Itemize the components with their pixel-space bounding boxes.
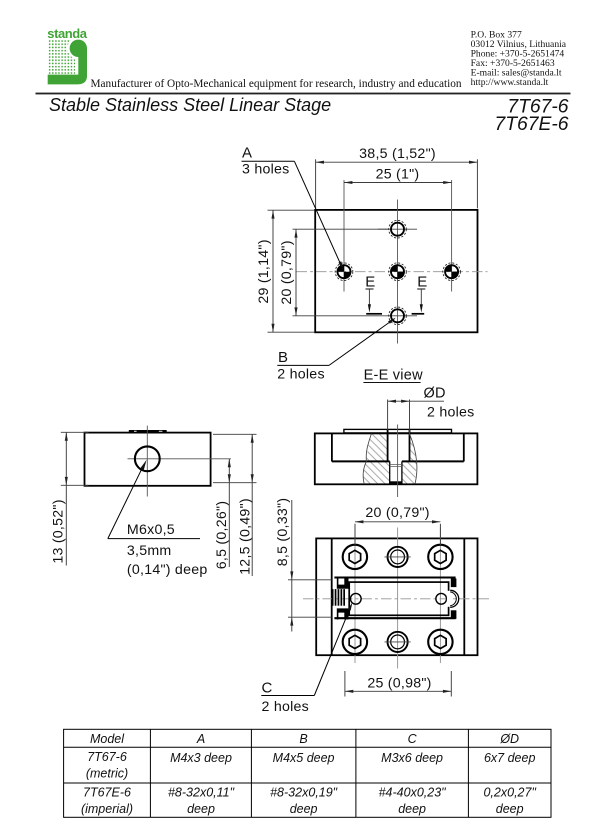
E-E counterbore left bbox=[387, 430, 389, 462]
screw bottom-right bbox=[428, 630, 452, 654]
svg-text:deep: deep bbox=[496, 802, 524, 816]
right column centerline bbox=[439, 528, 441, 664]
svg-text:Manufacturer of Opto-Mechanica: Manufacturer of Opto-Mechanical equipmen… bbox=[91, 78, 462, 90]
dimension 20 bottom bbox=[355, 505, 440, 545]
svg-text:standa: standa bbox=[47, 26, 87, 41]
hole bottom-center bbox=[388, 632, 408, 652]
dimension 29 bbox=[256, 210, 315, 332]
logo standa bbox=[47, 26, 89, 84]
hatch left above shelf bbox=[366, 434, 387, 462]
part number 7T67E-6 bbox=[495, 114, 569, 135]
svg-text:E: E bbox=[365, 274, 375, 291]
svg-text:8,5 (0,33"): 8,5 (0,33") bbox=[275, 498, 291, 567]
top view body bbox=[315, 210, 477, 332]
svg-text:7T67-6: 7T67-6 bbox=[87, 750, 127, 764]
table row metric bbox=[86, 750, 536, 781]
hole A3 right bbox=[443, 263, 461, 281]
E-E shelf left bbox=[332, 460, 390, 462]
svg-text:13 (0,52"): 13 (0,52") bbox=[51, 499, 67, 563]
bracket top-left bbox=[337, 578, 349, 589]
screw top-right bbox=[428, 545, 452, 569]
svg-text:#8-32x0,19": #8-32x0,19" bbox=[270, 786, 338, 800]
svg-text:http://www.standa.lt: http://www.standa.lt bbox=[471, 77, 549, 88]
hole B1 top bbox=[389, 220, 407, 238]
E-E cavity left edge bbox=[331, 433, 333, 461]
E-E through hole right bbox=[401, 461, 403, 483]
side hole M6 bbox=[135, 446, 160, 471]
svg-text:3,5mm: 3,5mm bbox=[127, 543, 172, 559]
left rail bbox=[331, 538, 333, 655]
M6 label bbox=[127, 522, 208, 578]
E-E top plate bbox=[344, 429, 452, 433]
screw bottom-left bbox=[343, 630, 367, 654]
spring coils bbox=[332, 589, 345, 606]
svg-text:Stable Stainless Steel Linear: Stable Stainless Steel Linear Stage bbox=[49, 95, 331, 115]
top-center crosshair bbox=[385, 556, 411, 558]
table header row bbox=[90, 732, 519, 746]
svg-text:2 holes: 2 holes bbox=[277, 366, 325, 382]
right hole centerline / extension bbox=[451, 180, 453, 292]
bottom hole crosshair bbox=[378, 315, 417, 317]
svg-text:ØD: ØD bbox=[424, 385, 446, 401]
dimension 6,5 bbox=[213, 459, 257, 569]
hatch left below shelf bbox=[363, 461, 390, 483]
svg-text:E-E view: E-E view bbox=[364, 367, 423, 383]
channel inner frame bbox=[349, 582, 448, 615]
svg-text:(0,14") deep: (0,14") deep bbox=[127, 562, 208, 578]
horizontal centerline bbox=[297, 271, 488, 273]
E-E counterbore right bbox=[409, 430, 411, 462]
E-E through hole left bbox=[389, 461, 391, 483]
bottom view body bbox=[316, 538, 477, 655]
svg-text:ØD: ØD bbox=[499, 732, 519, 746]
hatch right below shelf bbox=[402, 461, 417, 483]
hole A2 center bbox=[389, 263, 407, 281]
svg-text:M3x6 deep: M3x6 deep bbox=[381, 751, 443, 765]
dimension 12,5 bbox=[213, 434, 257, 576]
M6 leader bbox=[108, 459, 200, 539]
dimension 8,5 bbox=[275, 498, 332, 632]
svg-text:25 (1"): 25 (1") bbox=[376, 166, 420, 182]
svg-text:(metric): (metric) bbox=[86, 767, 128, 781]
svg-text:25 (0,98"): 25 (0,98") bbox=[367, 676, 431, 692]
side hole horizontal centerline bbox=[128, 458, 232, 460]
E-E cavity right edge bbox=[463, 433, 465, 461]
channel top line bbox=[334, 576, 455, 578]
svg-text:7T67E-6: 7T67E-6 bbox=[83, 786, 131, 800]
title bbox=[49, 95, 331, 115]
side hole vertical centerline bbox=[146, 426, 148, 497]
wavy break line left bbox=[363, 434, 371, 484]
channel bottom line bbox=[334, 617, 455, 619]
svg-text:M4x3 deep: M4x3 deep bbox=[170, 751, 232, 765]
top hole crosshair bbox=[378, 228, 417, 230]
hole bottom bar bbox=[389, 481, 402, 484]
C hole left bbox=[350, 593, 361, 604]
svg-text:7T67E-6: 7T67E-6 bbox=[495, 114, 569, 135]
svg-text:2 holes: 2 holes bbox=[427, 404, 475, 420]
center column centerline bbox=[397, 200, 399, 344]
dimension 20 bbox=[279, 229, 389, 316]
svg-text:deep: deep bbox=[187, 802, 215, 816]
side view top plate strip bbox=[129, 430, 167, 433]
right rail bbox=[463, 538, 465, 655]
svg-text:12,5 (0,49"): 12,5 (0,49") bbox=[238, 498, 254, 575]
left column centerline bbox=[354, 528, 356, 664]
svg-text:deep: deep bbox=[290, 802, 318, 816]
thread lines bbox=[390, 464, 402, 466]
svg-text:6x7 deep: 6x7 deep bbox=[484, 751, 535, 765]
label C leader bbox=[261, 602, 354, 715]
part number 7T67-6 bbox=[507, 96, 568, 117]
table row imperial bbox=[81, 786, 536, 817]
middle horizontal centerline bbox=[303, 598, 490, 600]
left hole centerline / extension bbox=[343, 180, 345, 292]
dimension 25 bbox=[344, 166, 452, 184]
C hole right bbox=[436, 593, 447, 604]
D semicircle bbox=[447, 590, 459, 607]
svg-text:#4-40x0,23": #4-40x0,23" bbox=[379, 786, 447, 800]
header rule bbox=[36, 93, 571, 95]
section marker E left bbox=[365, 274, 382, 314]
svg-text:E: E bbox=[417, 274, 427, 291]
hatch right above shelf bbox=[409, 434, 416, 462]
svg-text:20 (0,79"): 20 (0,79") bbox=[279, 240, 295, 304]
center column centerline bbox=[397, 528, 399, 669]
svg-text:(imperial): (imperial) bbox=[81, 802, 133, 816]
label B leader bbox=[277, 316, 396, 382]
E-E shelf right bbox=[402, 460, 464, 462]
svg-text:20 (0,79"): 20 (0,79") bbox=[365, 505, 429, 521]
dimension 13 bbox=[51, 432, 89, 565]
bracket bottom-right bbox=[451, 610, 457, 619]
hole top-center bbox=[388, 547, 408, 567]
svg-text:29 (1,14"): 29 (1,14") bbox=[256, 239, 272, 303]
E-E view label bbox=[363, 367, 423, 383]
E-E body outline bbox=[315, 433, 478, 484]
svg-text:38,5 (1,52"): 38,5 (1,52") bbox=[359, 146, 436, 162]
manufacturer line bbox=[91, 78, 462, 90]
E-E centerline bbox=[397, 425, 399, 498]
section marker E right bbox=[412, 274, 428, 314]
svg-text:C: C bbox=[408, 732, 418, 746]
svg-text:#8-32x0,11": #8-32x0,11" bbox=[168, 786, 235, 800]
contact block bbox=[471, 30, 567, 89]
table grid bbox=[64, 729, 551, 817]
wavy break line right bbox=[409, 434, 417, 484]
bracket top-right bbox=[451, 579, 457, 588]
hole A1 left bbox=[335, 263, 353, 281]
svg-text:deep: deep bbox=[398, 802, 426, 816]
svg-text:M4x5 deep: M4x5 deep bbox=[273, 751, 335, 765]
dimension 38,5 bbox=[316, 146, 478, 208]
hole B2 bottom bbox=[389, 307, 407, 325]
svg-text:A: A bbox=[242, 145, 252, 162]
svg-text:6,5 (0,26"): 6,5 (0,26") bbox=[214, 501, 230, 570]
svg-text:2 holes: 2 holes bbox=[262, 699, 310, 715]
bottom-center crosshair bbox=[385, 641, 411, 643]
svg-text:3 holes: 3 holes bbox=[242, 161, 290, 177]
svg-text:B: B bbox=[278, 349, 288, 366]
svg-text:B: B bbox=[299, 732, 307, 746]
screw top-left bbox=[343, 545, 367, 569]
svg-text:A: A bbox=[196, 732, 205, 746]
svg-text:0,2x0,27": 0,2x0,27" bbox=[483, 786, 536, 800]
svg-text:C: C bbox=[262, 680, 273, 697]
label A leader bbox=[242, 145, 345, 271]
bracket bottom-left bbox=[337, 608, 349, 619]
dimension OD bbox=[388, 385, 475, 435]
svg-text:M6x0,5: M6x0,5 bbox=[127, 522, 175, 538]
svg-text:Model: Model bbox=[90, 732, 125, 746]
side view body bbox=[85, 433, 211, 486]
dimension 25 bottom bbox=[345, 671, 451, 697]
